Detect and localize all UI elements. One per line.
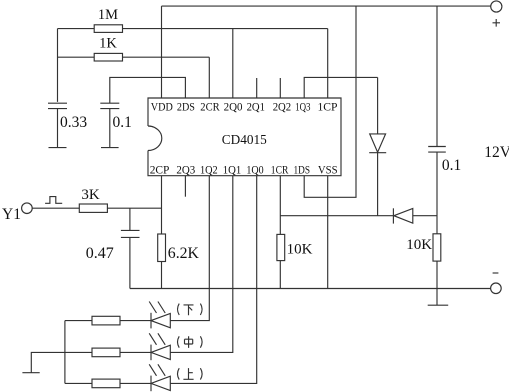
pin 1CP label (318, 100, 338, 114)
LED D5 (上) (149, 364, 170, 391)
svg-text:0.1: 0.1 (442, 157, 461, 174)
pin stub 2Q2 (279, 78, 281, 98)
wire 1Q3 to diode (304, 77, 377, 98)
svg-text:10K: 10K (287, 241, 313, 257)
svg-text:3K: 3K (81, 187, 100, 203)
capacitor 0.1 (left, to 2DS) (100, 77, 185, 147)
pin 1Q3 label (295, 100, 310, 114)
wire 1CP branch (327, 29, 329, 98)
svg-text:2CR: 2CR (200, 100, 220, 114)
pin 2Q2 label (273, 100, 292, 114)
svg-text:VSS: VSS (318, 162, 338, 176)
terminal Y1 input (2, 203, 32, 223)
pulse symbol (45, 197, 62, 204)
LED D3 (下) (149, 302, 170, 329)
wire VSS down to negative rail (327, 176, 329, 289)
pin VDD label (151, 100, 173, 114)
resistor 1M (94, 7, 122, 32)
resistor 1K (94, 36, 122, 61)
wire 2CP down through node to 6.2K (161, 176, 163, 234)
pin 2Q1 label (247, 100, 265, 114)
wire mid rail (1CR/VSS/diode node) (280, 215, 393, 217)
svg-text:1Q3: 1Q3 (295, 100, 310, 114)
diode D2 (horizontal) (393, 208, 437, 223)
resistor row3 (92, 379, 120, 388)
wire row2 left (65, 351, 92, 353)
pin 1CR label (271, 162, 289, 176)
pin 2Q3 label (176, 162, 195, 176)
wire 1CR down (279, 176, 281, 235)
wire +12V right branch (436, 6, 438, 146)
wire LED bus (left vertical) (64, 321, 66, 384)
wire bottom negative rail (130, 288, 491, 290)
pin 1Q1 label (223, 162, 242, 176)
diode D1 (vertical) (369, 77, 386, 215)
resistor row1 (92, 316, 120, 325)
op-amp U1 CD4015 package body (148, 98, 341, 176)
wire 3K to 2CP node (107, 207, 161, 209)
svg-text:10K: 10K (406, 237, 432, 253)
wire 1K line to 2CR (58, 57, 210, 98)
svg-text:CD4015: CD4015 (222, 133, 267, 148)
svg-text:0.1: 0.1 (113, 114, 132, 131)
terminal + (positive supply) (491, 1, 502, 27)
capacitor 0.47 (86, 208, 140, 288)
svg-text:1Q0: 1Q0 (246, 162, 263, 176)
svg-text:6.2K: 6.2K (168, 245, 200, 262)
wire row3 to LED3 (120, 382, 151, 384)
svg-text:1M: 1M (98, 7, 118, 23)
pin 2CR label (200, 100, 220, 114)
svg-text:2Q2: 2Q2 (273, 100, 292, 114)
wire Y1 to 3K (32, 207, 79, 209)
label (下) (178, 304, 203, 316)
wire 1M feedback line (node A) (58, 29, 328, 102)
resistor 10K (left) (277, 234, 313, 260)
svg-text:1Q2: 1Q2 (200, 162, 218, 176)
wire 1Q2 to LED row 1 (170, 176, 209, 321)
svg-text:0.47: 0.47 (86, 245, 114, 262)
svg-text:Y1: Y1 (2, 206, 21, 223)
wire 10K left bottom (279, 261, 281, 289)
label (上) (178, 368, 203, 380)
wire VDD to top rail (161, 6, 163, 98)
resistor 3K (79, 187, 107, 212)
svg-text:0.33: 0.33 (60, 114, 87, 131)
terminal - (negative supply) (491, 273, 502, 294)
resistor 6.2K (158, 234, 200, 262)
pin VSS label (318, 162, 338, 176)
wire top +12V rail (162, 5, 491, 7)
wire row1 left (65, 320, 92, 322)
svg-text:2Q0: 2Q0 (224, 100, 243, 114)
svg-text:1CP: 1CP (318, 100, 338, 114)
pin 2DS label (177, 100, 195, 114)
LED D4 (中) (149, 333, 170, 360)
pin 2CP label (150, 162, 170, 176)
pin 2Q0 label (224, 100, 243, 114)
wire row3 left (65, 382, 92, 384)
svg-text:2Q1: 2Q1 (247, 100, 265, 114)
svg-text:VDD: VDD (151, 100, 173, 114)
pin stub 2Q1 (256, 78, 258, 98)
svg-text:2CP: 2CP (150, 162, 170, 176)
wire 1Q1 to LED row 2 (170, 176, 232, 353)
resistor row2 (92, 348, 120, 357)
wire row2 to LED2 (120, 351, 151, 353)
wire 10K right bottom / end bar (428, 261, 449, 305)
pin 1Q0 label (246, 162, 263, 176)
wire 1DS to +12V (304, 6, 356, 197)
svg-text:2DS: 2DS (177, 100, 195, 114)
svg-text:1K: 1K (99, 36, 117, 52)
pin 1Q2 label (200, 162, 218, 176)
wire 6.2K bottom to rail (161, 262, 163, 289)
supply label 12V (484, 144, 509, 161)
wire row1 to LED1 (120, 320, 151, 322)
capacitor 0.33 (48, 103, 87, 147)
pin 1DS label (294, 162, 311, 176)
label (中) (178, 336, 203, 348)
capacitor 0.1 (right) (428, 147, 461, 234)
svg-text:1DS: 1DS (294, 162, 311, 176)
ground (22, 352, 65, 372)
svg-text:1Q1: 1Q1 (223, 162, 242, 176)
svg-text:12V: 12V (484, 144, 509, 161)
wire 2Q0 branch (232, 29, 234, 98)
pin stub 2Q3 (184, 176, 186, 197)
svg-text:1CR: 1CR (271, 162, 289, 176)
svg-text:2Q3: 2Q3 (176, 162, 195, 176)
resistor 10K (right) (406, 234, 441, 261)
wire 1Q0 to LED row 3 (170, 176, 256, 384)
